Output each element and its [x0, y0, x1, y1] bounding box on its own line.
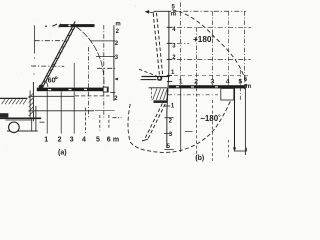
svg-text:1: 1 — [179, 79, 183, 86]
right meter axis (a) — [113, 25, 115, 101]
svg-text:(b): (b) — [195, 155, 204, 162]
node: sparse dots below left vertical — [33, 57, 35, 74]
svg-text:5: 5 — [96, 136, 100, 143]
axis scale labels (b) — [171, 27, 176, 76]
hanging panel dashed double line (down swing) — [145, 103, 166, 140]
svg-text:5: 5 — [238, 79, 242, 86]
upper swing arc (b) — [172, 10, 247, 86]
svg-text:6: 6 — [107, 136, 111, 143]
svg-text:2: 2 — [194, 79, 198, 86]
rotation arrow at open panel top — [145, 10, 154, 14]
tip trajectory arc (a) — [76, 27, 104, 88]
vertical pointer with arrow (b) — [233, 88, 236, 152]
small left arrow glyph on axis — [114, 78, 118, 81]
lower swing arc (b) — [128, 100, 231, 153]
svg-text:3: 3 — [70, 136, 74, 143]
bottom right line — [235, 148, 247, 152]
top line left of axis — [154, 10, 172, 12]
open sash diagonal double line — [40, 22, 75, 89]
svg-text:+180°: +180° — [193, 35, 214, 44]
stray tick left of top bar — [52, 24, 57, 26]
svg-text:−180°: −180° — [200, 114, 221, 123]
svg-text:1: 1 — [44, 136, 48, 143]
dash-dot vertical x=88.5 — [88, 47, 90, 118]
closed sash bar (a) — [37, 87, 109, 92]
scan speckle noise — [3, 5, 243, 158]
dash-dot vertical x=103.8 — [103, 25, 105, 118]
sill channel — [6, 106, 45, 131]
angle arc 60deg — [44, 80, 48, 87]
wall ledge with hatching below — [0, 98, 27, 104]
stray end dash of panel — [139, 69, 157, 76]
bottom scale numbers (a) — [44, 136, 119, 143]
hinge pivot (a) — [39, 85, 44, 90]
right border vertical solid — [244, 84, 246, 155]
wall inner verticals with hatching — [29, 82, 34, 121]
lower axis ticks (b) — [164, 106, 174, 149]
svg-text:m: m — [113, 136, 119, 143]
long horizontal y=96.3 — [29, 95, 75, 97]
top horizontal stop bar — [59, 24, 95, 28]
axis labels (a) — [114, 22, 121, 102]
horizontal grid lines (b) — [167, 27, 251, 95]
svg-text:4: 4 — [82, 136, 86, 143]
pier with hatching — [149, 88, 168, 101]
short line below -180 — [185, 131, 193, 133]
axis ticks upper (b) — [167, 27, 173, 75]
dashed grid verticals bottom — [85, 108, 109, 133]
svg-text:(a): (a) — [58, 149, 67, 156]
hanging panel end tick — [142, 139, 148, 141]
grid verticals (b) — [181, 3, 245, 162]
sill bar left of axis — [154, 100, 168, 103]
svg-text:3: 3 — [211, 79, 215, 86]
closed panel bar (b) — [169, 84, 245, 89]
ladder ticks on sash — [43, 29, 75, 83]
hinge axis vertical (b) — [167, 11, 169, 148]
node: dotted marks at bar level — [45, 25, 61, 26]
svg-text:4: 4 — [226, 79, 230, 86]
dark block left edge — [0, 113, 8, 117]
bar top scale numbers (b) — [179, 77, 248, 86]
wire: left dimension vertical — [34, 26, 36, 54]
svg-text:2: 2 — [58, 136, 62, 143]
horizontal reference lines right side (a) — [90, 41, 115, 93]
open panel dashed double line (+180 swing up) — [153, 13, 163, 77]
frame rectangle below bar right — [221, 88, 234, 100]
small dash-dot near m — [113, 117, 122, 119]
lower axis labels (b) — [167, 104, 175, 151]
wall bottom thick line — [0, 117, 41, 119]
lintel line 2 — [141, 79, 157, 81]
solid grid verticals below bar — [47, 63, 74, 134]
roller circle — [9, 122, 20, 133]
hinge knot (b) with eye — [157, 76, 162, 81]
svg-text:60: 60 — [48, 75, 56, 84]
lintel line 1 — [142, 76, 170, 78]
svg-text:m: m — [115, 22, 120, 28]
wire: dash-dot horizontal y=66.2 — [31, 65, 64, 67]
wire: dash-dot horizontal y=40.7 — [35, 40, 64, 42]
long horizontal y=110.8 — [29, 110, 95, 112]
top dash-dot line right of axis — [173, 10, 246, 12]
